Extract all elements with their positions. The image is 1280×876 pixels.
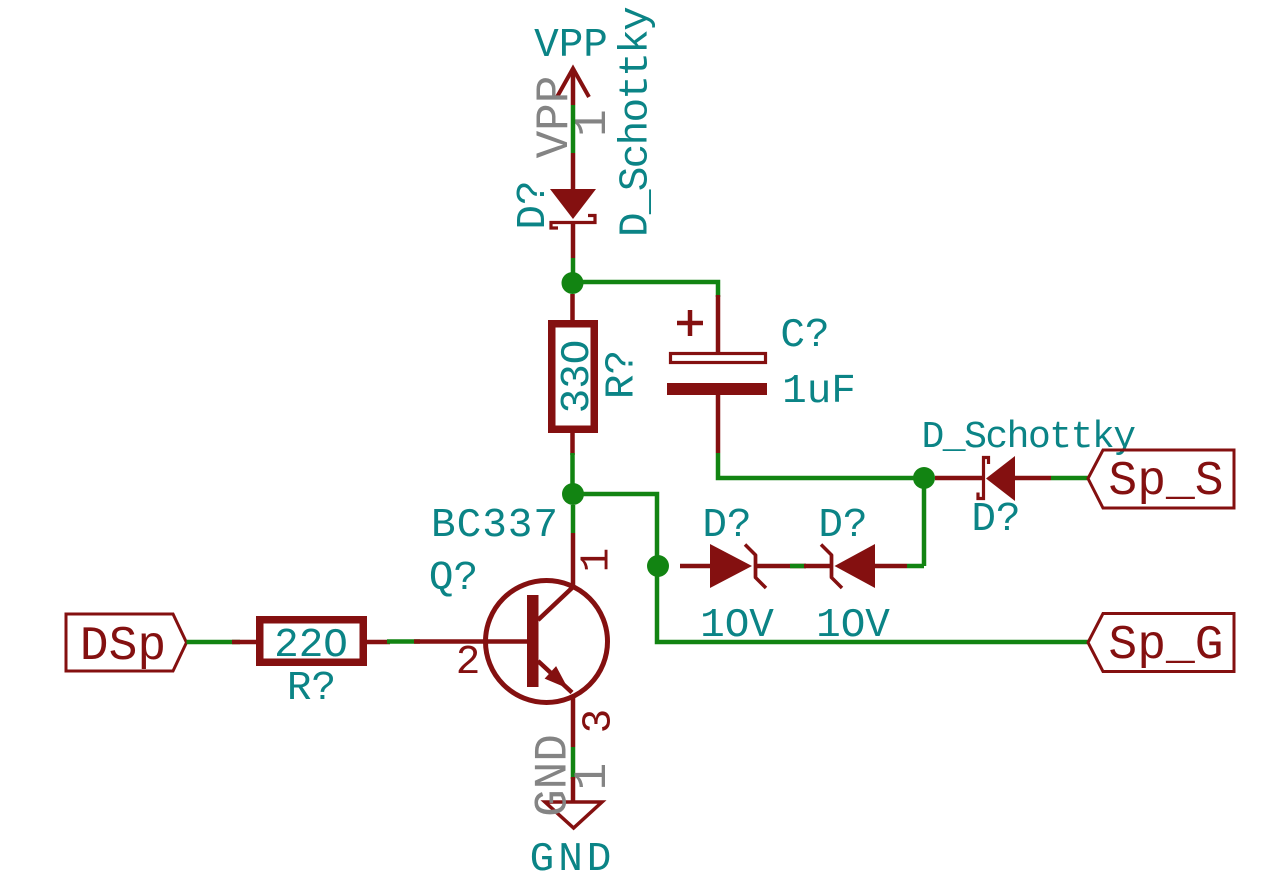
junction node B [913,467,935,489]
wire junction A to capacitor [572,282,718,297]
svg-text:2: 2 [456,640,481,686]
svg-text:1: 1 [567,763,619,791]
junction node A [562,272,584,294]
power symbol GND [528,734,620,876]
diode D? (D_Schottky, horizontal) [921,416,1135,543]
svg-text:D?: D? [818,503,867,549]
wire collector to junction D [571,505,576,533]
wire D to Sp_S [1051,476,1088,481]
resistor R? 330 [552,294,646,455]
svg-text:22O: 22O [274,623,348,669]
wire zeners to junction B riser [907,564,924,569]
svg-text:D?: D? [702,503,751,549]
svg-text:VPP: VPP [534,23,608,69]
junction node D [562,483,584,505]
wire R330 to junction D [570,453,575,487]
power flag VPP [529,23,619,158]
zener diode D? left (10V) [680,503,774,649]
hierarchical label DSp [66,614,187,674]
junction node C [647,555,669,577]
wire emitter to GND [571,747,576,779]
wire between zeners [756,564,806,569]
capacitor C1 (polarized) [667,295,856,453]
wire junction B down to zeners [922,478,927,566]
svg-text:Q?: Q? [429,556,478,602]
svg-text:C?: C? [780,313,829,359]
wire capacitor to junction B [718,453,924,478]
wire R220 to Q1 base [387,639,420,644]
svg-text:1: 1 [575,548,621,573]
hierarchical label Sp_S [1088,450,1234,509]
zener diode D? right (10V) [804,503,907,649]
diode D? (D_Schottky, vertical) [511,7,660,258]
transistor Q? BC337 [414,503,623,747]
svg-text:D?: D? [511,180,557,229]
svg-text:R?: R? [287,666,336,712]
hierarchical label Sp_G [1088,614,1234,674]
svg-text:Sp_S: Sp_S [1108,455,1223,509]
svg-text:Sp_G: Sp_G [1108,619,1223,673]
svg-text:GND: GND [530,837,616,876]
wire VPP to D1 [571,105,576,153]
wire D1 to junction [571,258,576,276]
resistor R? 220 [232,620,390,712]
wire junction D to Sp_G [573,494,1088,642]
svg-text:1uF: 1uF [782,369,856,415]
svg-text:33O: 33O [555,340,601,414]
svg-text:BC337: BC337 [431,503,559,549]
wire DSp to R220 [187,640,241,645]
svg-text:DSp: DSp [80,620,166,674]
svg-text:3: 3 [577,709,623,734]
svg-text:D_Schottky: D_Schottky [614,7,660,237]
svg-text:R?: R? [600,350,646,399]
svg-text:D?: D? [971,497,1020,543]
